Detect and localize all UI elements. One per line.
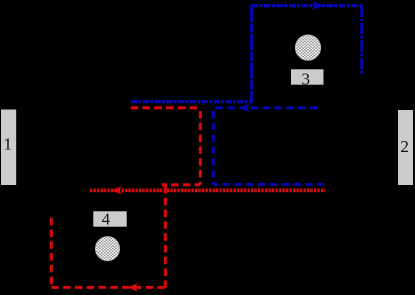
svg-text:4: 4 [102, 210, 111, 229]
svg-text:1: 1 [4, 135, 13, 154]
svg-text:2: 2 [400, 137, 409, 156]
svg-text:3: 3 [302, 70, 311, 89]
